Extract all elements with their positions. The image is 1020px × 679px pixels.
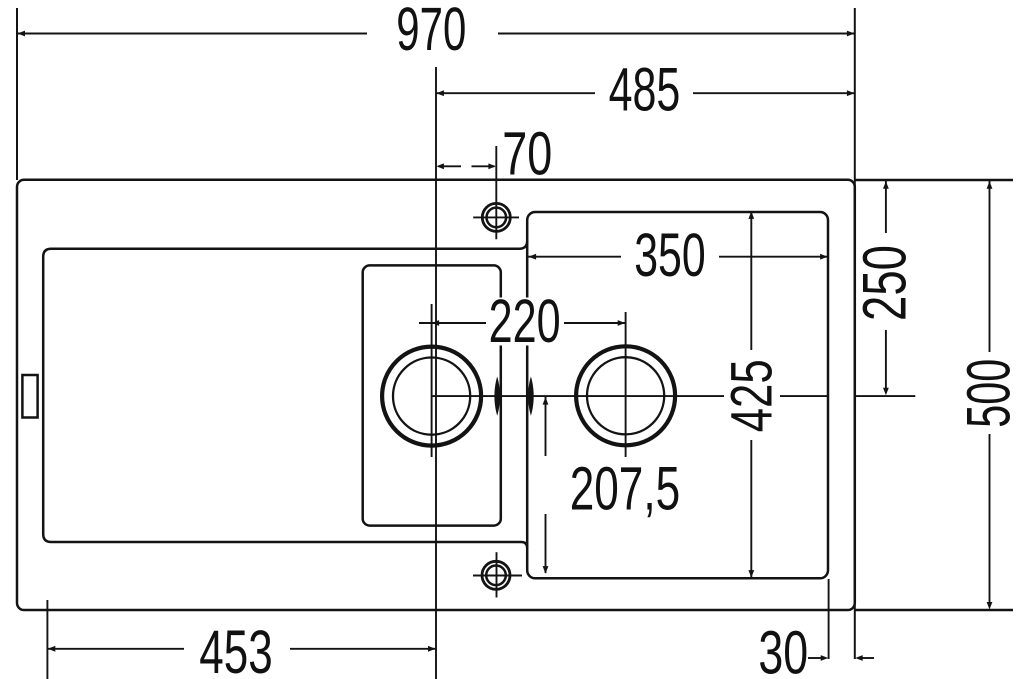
right bowl outline xyxy=(527,212,828,578)
dimension text 485 xyxy=(609,55,681,123)
overflow slot on left rim xyxy=(22,375,37,418)
dimension text 500 (rotated) xyxy=(955,359,1020,428)
svg-text:485: 485 xyxy=(609,55,681,123)
dimension text 350 xyxy=(634,221,706,289)
tap hole symbol xyxy=(473,146,519,239)
sink rim outline xyxy=(17,180,855,610)
dimension 30 arrows xyxy=(808,655,874,661)
svg-text:220: 220 xyxy=(489,287,561,355)
dimension text 453 xyxy=(199,618,272,679)
overflow lens mark right xyxy=(528,377,534,416)
left drain centre line xyxy=(431,304,433,457)
dimension 453 line xyxy=(47,646,436,652)
dimension 500 line xyxy=(987,181,993,610)
bottom mounting hole symbol xyxy=(473,552,522,597)
right drain circle xyxy=(576,346,675,445)
svg-text:425: 425 xyxy=(719,359,784,432)
dimension 70 line xyxy=(436,163,496,169)
dimension 350 line xyxy=(528,254,827,260)
sink centre extension line xyxy=(435,67,437,679)
dimension text 70 xyxy=(502,120,552,188)
svg-text:30: 30 xyxy=(758,619,808,679)
right extension line xyxy=(854,8,856,659)
svg-text:250: 250 xyxy=(851,245,919,321)
dimension 485 line xyxy=(436,90,855,96)
dimension 970 line xyxy=(17,31,855,37)
text mask for 220 xyxy=(487,298,563,346)
right drain centre line xyxy=(625,312,627,457)
svg-text:970: 970 xyxy=(396,0,466,63)
dimension 453 left extension line xyxy=(46,600,48,679)
dimension text 970 xyxy=(396,0,466,63)
dimension 425 line xyxy=(748,211,754,577)
bottom edge extension line (right) xyxy=(855,609,1013,612)
overflow lens mark left xyxy=(494,377,500,416)
svg-text:350: 350 xyxy=(634,221,706,289)
left extension line xyxy=(16,8,18,180)
dimension text 250 (rotated) xyxy=(851,245,919,321)
svg-text:453: 453 xyxy=(199,618,272,679)
drainboard outline xyxy=(43,241,527,548)
dimension 207,5 line xyxy=(543,397,549,574)
dimension text 220 xyxy=(489,287,561,355)
dimension 250 line xyxy=(883,181,889,395)
left drain circle xyxy=(382,347,481,446)
svg-text:500: 500 xyxy=(955,359,1020,428)
svg-text:70: 70 xyxy=(502,120,552,188)
dimension 220 line xyxy=(419,320,626,326)
dimension 30 extension line xyxy=(828,579,830,659)
dimension text 30 xyxy=(758,619,808,679)
dimension text 425 (rotated) xyxy=(719,359,784,432)
svg-text:207,5: 207,5 xyxy=(570,455,681,523)
horizontal bowl centre line xyxy=(432,395,916,397)
top edge extension line (right) xyxy=(855,179,1013,182)
dimension text 207,5 xyxy=(570,455,681,523)
middle bowl outline xyxy=(363,265,501,525)
